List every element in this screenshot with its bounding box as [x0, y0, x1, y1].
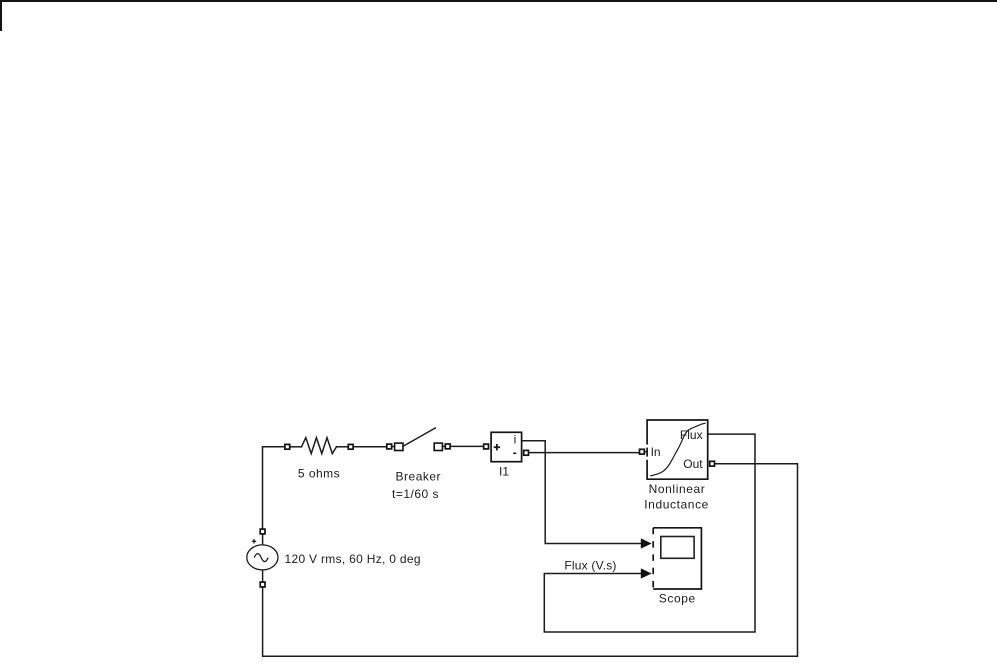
svg-text:I1: I1	[499, 464, 509, 478]
svg-text:t=1/60 s: t=1/60 s	[392, 487, 439, 501]
svg-text:In: In	[651, 445, 661, 459]
svg-text:Nonlinear: Nonlinear	[649, 482, 706, 496]
svg-text:Breaker: Breaker	[396, 469, 442, 483]
svg-text:Inductance: Inductance	[644, 497, 709, 511]
svg-text:120 V rms, 60 Hz, 0 deg: 120 V rms, 60 Hz, 0 deg	[285, 552, 421, 566]
svg-text:5 ohms: 5 ohms	[298, 467, 340, 481]
svg-text:Out: Out	[683, 457, 703, 471]
svg-text:Scope: Scope	[659, 592, 696, 606]
svg-text:Flux (V.s): Flux (V.s)	[564, 558, 616, 572]
svg-text:i: i	[514, 433, 517, 447]
svg-text:Flux: Flux	[680, 428, 703, 442]
